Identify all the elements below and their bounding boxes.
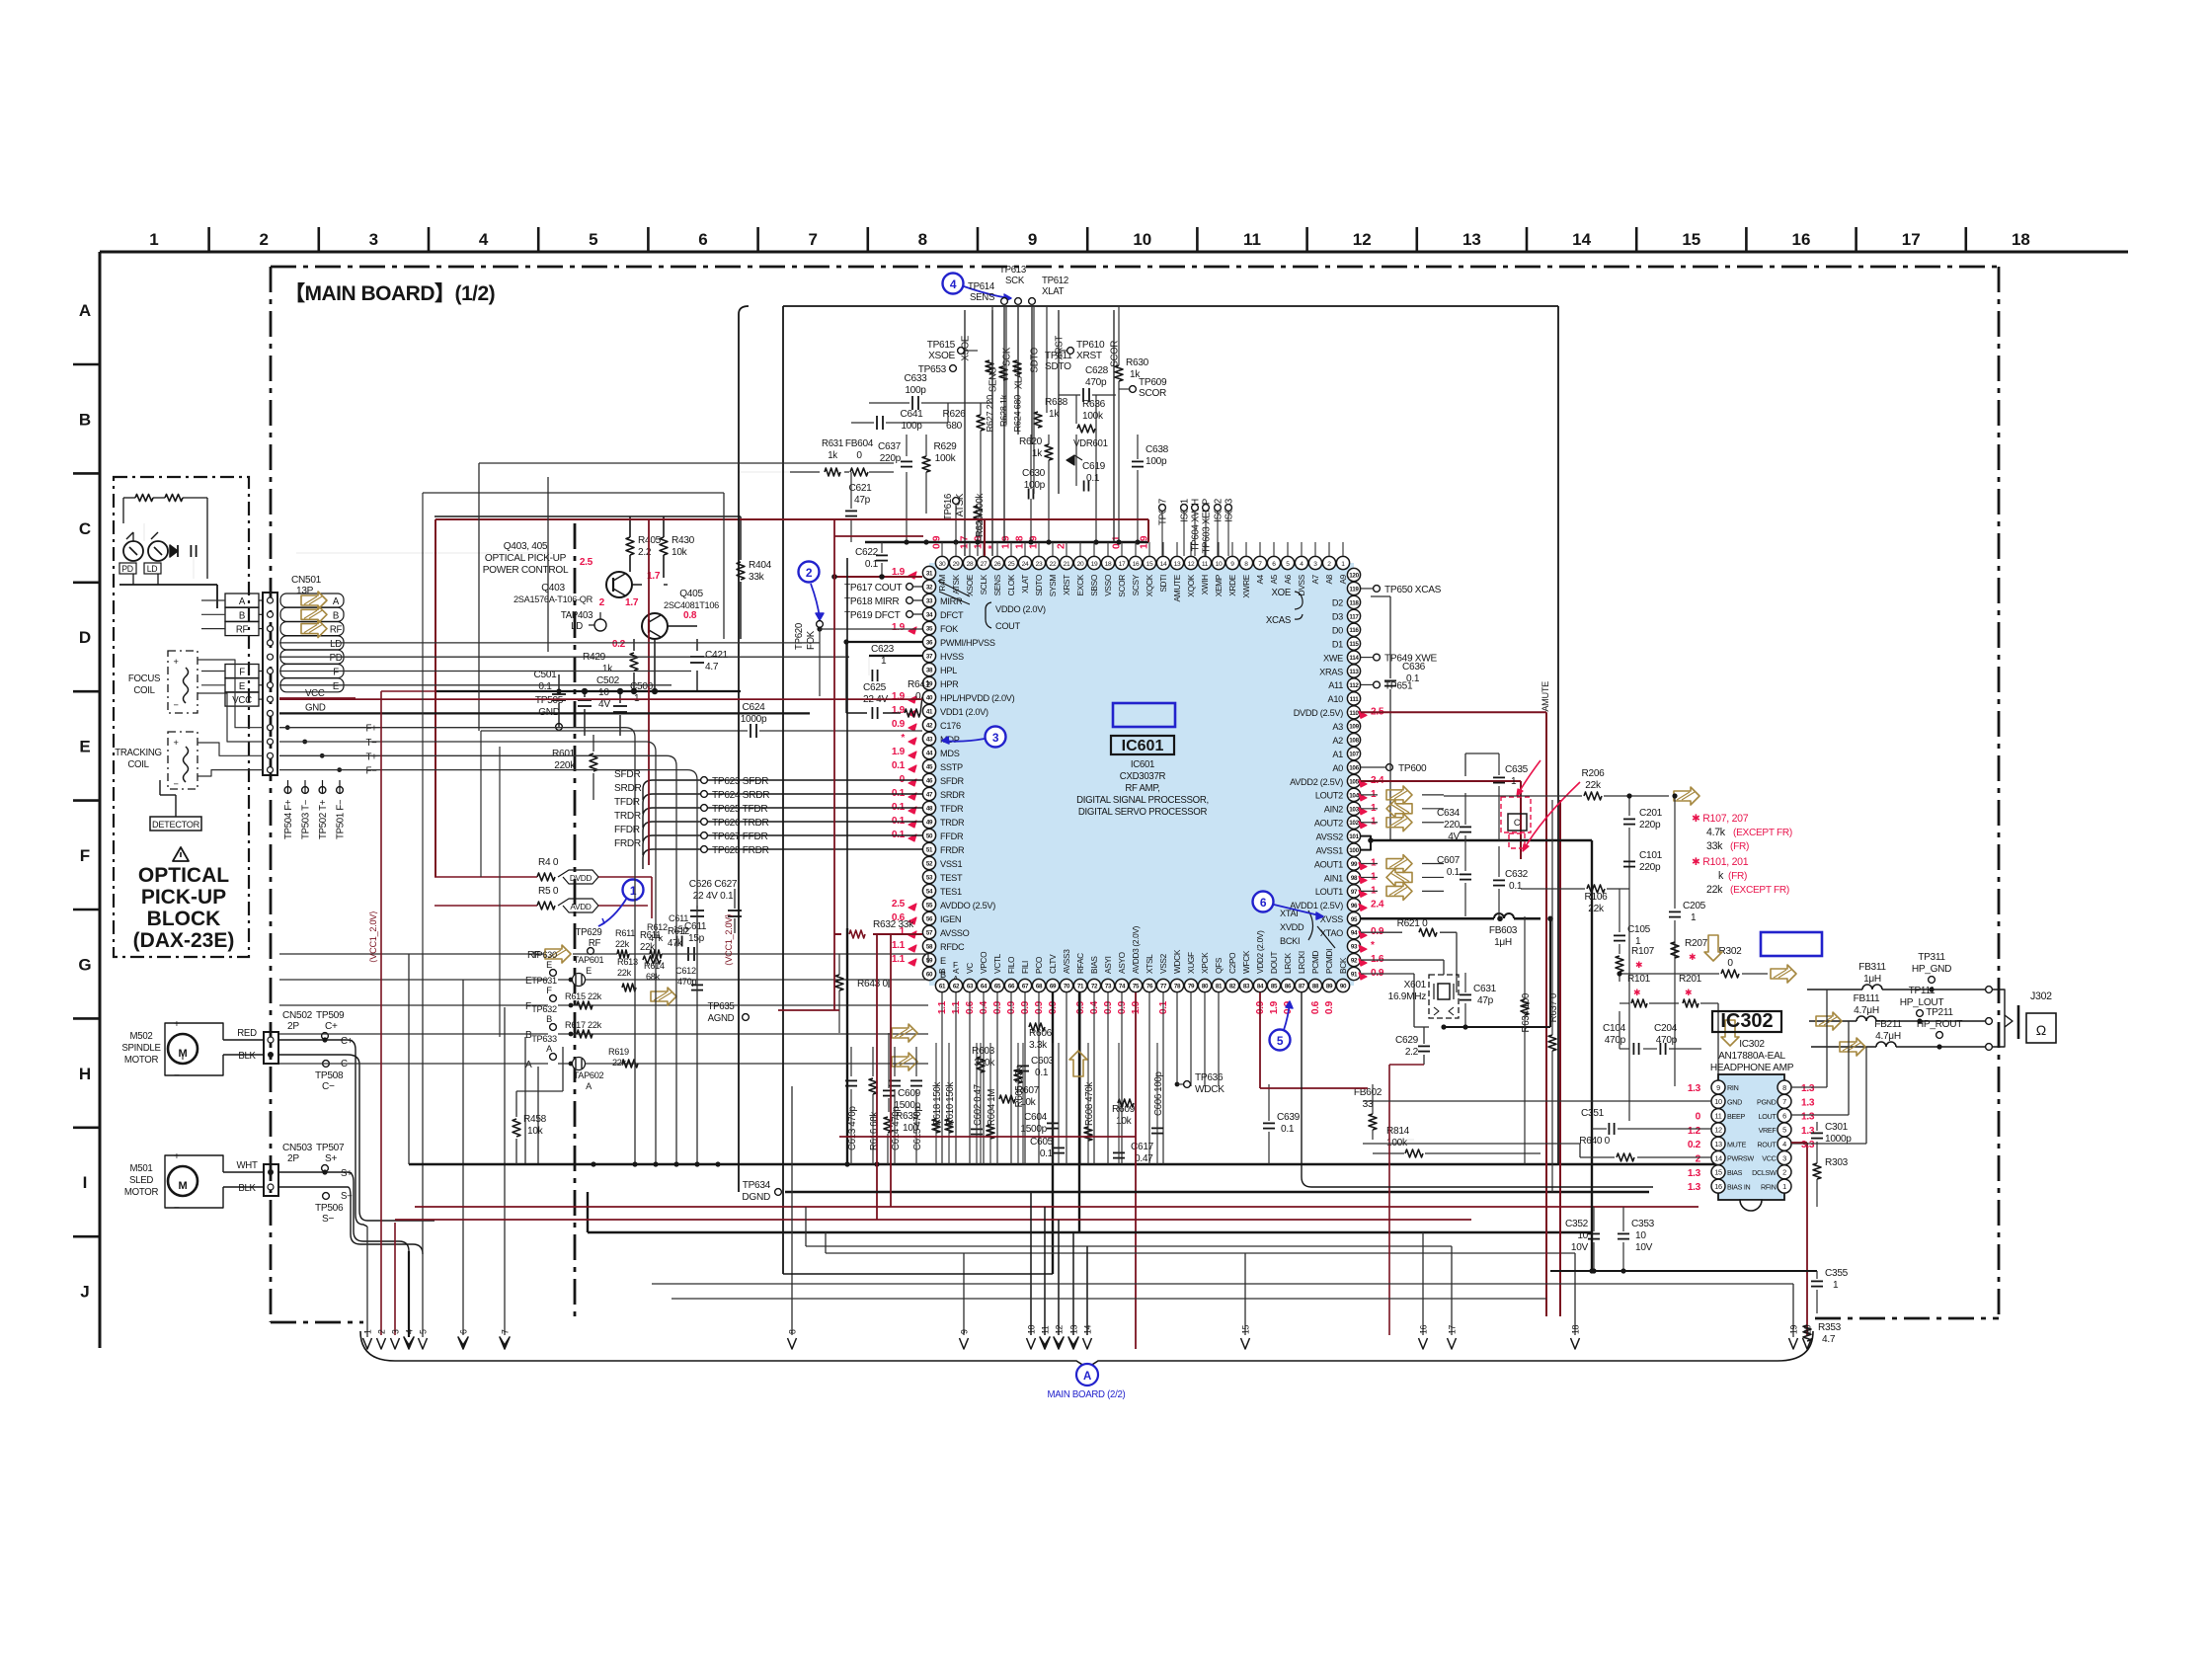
svg-text:C619: C619: [1082, 461, 1106, 472]
svg-text:1: 1: [881, 656, 887, 667]
svg-text:D3: D3: [1332, 612, 1343, 622]
svg-text:2P: 2P: [287, 1153, 299, 1164]
svg-text:C637: C637: [878, 441, 902, 452]
svg-text:XWE: XWE: [1323, 653, 1343, 663]
svg-text:I: I: [83, 1173, 88, 1192]
svg-text:BCK: BCK: [1339, 957, 1348, 974]
svg-text:R607: R607: [1016, 1085, 1040, 1096]
svg-text:✱: ✱: [1689, 952, 1696, 962]
svg-text:AVDD3 (2.0V): AVDD3 (2.0V): [1132, 925, 1141, 974]
svg-text:F+: F+: [366, 724, 378, 735]
svg-text:13: 13: [1174, 561, 1181, 568]
svg-text:58: 58: [926, 944, 933, 951]
svg-text:2: 2: [806, 566, 813, 580]
svg-text:3: 3: [1782, 1153, 1786, 1162]
svg-text:C617: C617: [1131, 1142, 1154, 1152]
svg-text:1k: 1k: [828, 450, 837, 461]
svg-text:SRDR: SRDR: [614, 783, 641, 794]
svg-text:C301: C301: [1825, 1122, 1849, 1133]
svg-text:10k: 10k: [527, 1126, 544, 1137]
svg-text:98: 98: [1351, 875, 1358, 882]
svg-text:49: 49: [926, 820, 933, 827]
svg-text:DIGITAL SIGNAL PROCESSOR,: DIGITAL SIGNAL PROCESSOR,: [1076, 795, 1209, 806]
svg-text:11: 11: [1714, 1111, 1721, 1120]
svg-text:10: 10: [1714, 1097, 1722, 1106]
svg-text:C605: C605: [1030, 1137, 1054, 1148]
svg-text:20: 20: [1077, 561, 1084, 568]
svg-text:B: B: [79, 410, 91, 429]
svg-text:2: 2: [377, 1329, 387, 1334]
svg-text:27: 27: [981, 561, 987, 568]
svg-text:7: 7: [1782, 1097, 1786, 1106]
svg-text:TP626 TRDR: TP626 TRDR: [712, 818, 769, 829]
svg-text:C101: C101: [1639, 850, 1663, 861]
svg-text:A8: A8: [1325, 574, 1334, 584]
svg-text:2.5: 2.5: [892, 899, 906, 910]
svg-text:HEADPHONE AMP: HEADPHONE AMP: [1710, 1063, 1794, 1073]
svg-text:C609: C609: [898, 1088, 921, 1099]
svg-text:28: 28: [967, 561, 974, 568]
svg-text:65: 65: [994, 984, 1001, 990]
svg-text:88: 88: [1312, 984, 1319, 990]
svg-text:C622: C622: [855, 547, 879, 558]
svg-text:59: 59: [926, 958, 933, 965]
svg-text:R629: R629: [934, 441, 958, 452]
svg-text:100k: 100k: [935, 453, 957, 464]
svg-text:S+: S+: [325, 1153, 337, 1164]
svg-text:XPCK: XPCK: [1201, 952, 1210, 974]
svg-text:119: 119: [1349, 586, 1359, 593]
svg-text:TP624 SRDR: TP624 SRDR: [712, 790, 769, 801]
svg-text:TP618 MIRR: TP618 MIRR: [844, 596, 899, 607]
svg-text:33: 33: [926, 598, 933, 605]
svg-text:R621 0: R621 0: [1397, 918, 1428, 929]
svg-text:C612: C612: [675, 966, 696, 976]
svg-text:XLAT: XLAT: [1021, 575, 1030, 594]
svg-text:FOK: FOK: [806, 630, 817, 650]
svg-text:SPINDLE: SPINDLE: [121, 1043, 161, 1054]
svg-text:AVSS2: AVSS2: [1316, 831, 1344, 841]
svg-text:R458: R458: [523, 1114, 547, 1125]
svg-text:95: 95: [1351, 916, 1358, 923]
svg-text:⟨VCC1_2.0V⟩: ⟨VCC1_2.0V⟩: [368, 911, 378, 963]
svg-text:LOUT2: LOUT2: [1315, 791, 1343, 801]
svg-text:PWRSW: PWRSW: [1727, 1155, 1754, 1163]
svg-text:0: 0: [1696, 1112, 1701, 1123]
svg-text:AN17880A-EAL: AN17880A-EAL: [1718, 1051, 1785, 1062]
svg-text:C607: C607: [1437, 855, 1461, 866]
svg-text:F: F: [525, 1001, 531, 1012]
svg-text:A10: A10: [1328, 694, 1344, 704]
svg-text:47p: 47p: [1477, 995, 1494, 1006]
svg-text:108: 108: [1349, 738, 1359, 745]
svg-text:114: 114: [1349, 655, 1359, 662]
svg-text:14: 14: [1714, 1153, 1722, 1162]
svg-text:C631: C631: [1473, 984, 1497, 994]
svg-text:22 4V 0.1: 22 4V 0.1: [693, 891, 734, 902]
svg-text:AVDD2 (2.5V): AVDD2 (2.5V): [1290, 777, 1343, 787]
svg-text:TP311: TP311: [1918, 952, 1945, 963]
svg-text:XWIH: XWIH: [1201, 575, 1210, 595]
svg-text:1.3: 1.3: [1801, 1126, 1815, 1137]
svg-text:F: F: [333, 668, 339, 678]
svg-text:15: 15: [1714, 1168, 1722, 1177]
svg-text:S−: S−: [322, 1214, 334, 1225]
svg-text:1k: 1k: [1049, 409, 1060, 420]
svg-text:TP211: TP211: [1926, 1007, 1953, 1018]
svg-text:E: E: [586, 966, 592, 976]
svg-text:AIN1: AIN1: [1324, 873, 1343, 883]
svg-text:R628 1k: R628 1k: [999, 394, 1009, 427]
svg-text:14: 14: [1160, 561, 1167, 568]
svg-text:C603: C603: [1031, 1056, 1055, 1067]
svg-text:45: 45: [926, 764, 933, 771]
svg-text:VDR601: VDR601: [1073, 438, 1108, 449]
svg-text:1.3: 1.3: [1801, 1083, 1815, 1094]
svg-text:16: 16: [1419, 1324, 1429, 1334]
svg-text:R303: R303: [1825, 1157, 1849, 1168]
svg-text:C626 C627: C626 C627: [689, 879, 738, 890]
svg-text:✱: ✱: [1685, 988, 1692, 997]
svg-text:5: 5: [1277, 1034, 1284, 1048]
svg-text:R641: R641: [908, 679, 931, 690]
svg-text:69: 69: [1050, 984, 1057, 990]
svg-text:A0: A0: [1332, 763, 1343, 773]
svg-text:6: 6: [459, 1329, 469, 1334]
svg-text:0.1: 0.1: [1406, 673, 1420, 684]
svg-text:SENS: SENS: [988, 367, 999, 392]
svg-text:3.3k: 3.3k: [1029, 1040, 1048, 1051]
svg-text:C104: C104: [1603, 1023, 1626, 1034]
svg-text:1.1: 1.1: [892, 940, 906, 951]
svg-text:VCTL: VCTL: [993, 953, 1002, 974]
svg-text:96: 96: [1351, 903, 1358, 910]
svg-text:TAP601: TAP601: [574, 955, 604, 965]
svg-text:C638: C638: [1145, 444, 1169, 455]
svg-text:TFDR: TFDR: [940, 804, 964, 814]
svg-text:AMUTE: AMUTE: [1173, 574, 1182, 601]
svg-text:2P: 2P: [287, 1021, 299, 1032]
svg-text:1.3: 1.3: [1688, 1083, 1701, 1094]
svg-text:110: 110: [1349, 710, 1359, 717]
svg-text:PCMD: PCMD: [1311, 951, 1320, 974]
svg-text:5: 5: [419, 1329, 429, 1334]
svg-text:1.3: 1.3: [1688, 1182, 1701, 1193]
svg-text:87: 87: [1299, 984, 1305, 990]
svg-text:SENS: SENS: [970, 292, 994, 303]
svg-text:C: C: [79, 519, 91, 538]
svg-text:4V: 4V: [598, 699, 610, 710]
svg-text:C625: C625: [863, 682, 887, 693]
svg-text:SDTO: SDTO: [1030, 347, 1041, 372]
svg-text:IC302: IC302: [1739, 1039, 1765, 1050]
svg-text:4: 4: [950, 277, 957, 291]
svg-text:100p: 100p: [905, 385, 926, 396]
svg-text:16: 16: [1714, 1182, 1722, 1191]
svg-text:C353: C353: [1631, 1219, 1655, 1229]
svg-text:74: 74: [1119, 984, 1126, 990]
svg-text:12: 12: [1353, 230, 1372, 249]
svg-text:A1: A1: [1332, 750, 1343, 759]
svg-text:15: 15: [1241, 1324, 1251, 1334]
svg-text:R630: R630: [1126, 357, 1149, 368]
svg-text:TP629: TP629: [576, 927, 602, 938]
svg-text:R612: R612: [647, 922, 668, 932]
svg-text:−: −: [173, 779, 178, 789]
svg-text:10: 10: [1133, 230, 1151, 249]
svg-text:C632: C632: [1505, 869, 1529, 880]
svg-text:VDD1 (2.0V): VDD1 (2.0V): [940, 707, 988, 717]
svg-text:16.9MHz: 16.9MHz: [1388, 991, 1427, 1002]
svg-text:80: 80: [1202, 984, 1209, 990]
svg-text:C604: C604: [1024, 1112, 1048, 1123]
svg-text:CLOK: CLOK: [1007, 574, 1016, 595]
svg-text:TAP602: TAP602: [574, 1070, 604, 1080]
svg-text:79: 79: [1188, 984, 1195, 990]
svg-text:R201: R201: [1679, 974, 1702, 985]
svg-text:470p: 470p: [1085, 377, 1107, 388]
svg-text:C639: C639: [1277, 1112, 1301, 1123]
svg-text:✱: ✱: [1633, 988, 1640, 997]
svg-text:R619: R619: [608, 1047, 629, 1057]
svg-text:100p: 100p: [1024, 480, 1046, 491]
svg-text:16: 16: [1792, 230, 1811, 249]
svg-text:HPR: HPR: [940, 679, 959, 689]
svg-text:B: B: [546, 1014, 552, 1024]
svg-text:2.5: 2.5: [580, 557, 593, 568]
svg-text:C621: C621: [849, 483, 873, 494]
svg-text:B: B: [333, 610, 339, 621]
svg-text:XUGF: XUGF: [1187, 952, 1196, 974]
svg-text:+: +: [173, 738, 178, 748]
svg-text:30: 30: [939, 561, 946, 568]
svg-text:−: −: [174, 1070, 180, 1081]
svg-text:100p: 100p: [1145, 456, 1167, 467]
svg-text:J: J: [80, 1283, 89, 1302]
svg-text:102: 102: [1349, 820, 1359, 827]
svg-text:116: 116: [1349, 627, 1359, 634]
svg-text:✱: ✱: [1635, 960, 1642, 970]
svg-text:15: 15: [1146, 561, 1153, 568]
svg-text:1: 1: [1691, 912, 1697, 923]
svg-text:4: 4: [479, 230, 489, 249]
svg-text:WFCK: WFCK: [1242, 950, 1251, 974]
svg-text:6: 6: [698, 230, 707, 249]
svg-text:29: 29: [953, 561, 960, 568]
svg-text:24: 24: [1022, 561, 1029, 568]
svg-text:TP632: TP632: [531, 1004, 557, 1014]
svg-text:22: 22: [1050, 561, 1057, 568]
svg-text:LOUT: LOUT: [1759, 1113, 1777, 1121]
svg-text:COIL: COIL: [127, 759, 149, 770]
svg-text:3: 3: [391, 1329, 401, 1334]
svg-text:R107: R107: [1631, 946, 1655, 957]
svg-text:TP504 F+: TP504 F+: [283, 799, 294, 839]
svg-text:MIRR: MIRR: [940, 596, 963, 606]
svg-text:XVDD: XVDD: [1280, 922, 1304, 932]
svg-text:Ω: Ω: [2036, 1022, 2046, 1038]
svg-text:2: 2: [1782, 1168, 1786, 1177]
svg-text:115: 115: [1349, 641, 1359, 648]
svg-text:IC302: IC302: [1720, 1010, 1773, 1032]
svg-text:CXD3037R: CXD3037R: [1120, 771, 1166, 782]
svg-text:105: 105: [1349, 778, 1359, 785]
svg-text:R4 0: R4 0: [538, 857, 559, 868]
svg-text:9: 9: [1028, 230, 1037, 249]
svg-text:73: 73: [1105, 984, 1112, 990]
svg-text:D2: D2: [1332, 598, 1343, 608]
svg-text:A7: A7: [1311, 574, 1320, 584]
svg-text:34: 34: [926, 612, 933, 619]
svg-text:FFDR: FFDR: [614, 825, 640, 835]
svg-text:Q403: Q403: [541, 583, 565, 594]
svg-text:17: 17: [1448, 1324, 1458, 1334]
svg-text:CN502: CN502: [282, 1010, 313, 1021]
svg-text:56: 56: [926, 916, 933, 923]
svg-text:22k: 22k: [1588, 904, 1605, 914]
svg-text:2: 2: [259, 230, 268, 249]
svg-text:A: A: [333, 596, 340, 607]
svg-text:TP631: TP631: [531, 976, 557, 986]
svg-text:51: 51: [926, 847, 933, 854]
svg-text:33k: 33k: [749, 572, 765, 583]
svg-text:R637 0: R637 0: [1548, 993, 1559, 1022]
svg-text:78: 78: [1174, 984, 1181, 990]
svg-text:+: +: [174, 1151, 180, 1162]
svg-text:RFDC: RFDC: [940, 942, 965, 952]
svg-text:C351: C351: [1581, 1108, 1605, 1119]
svg-text:4.7μH: 4.7μH: [1875, 1031, 1901, 1042]
svg-text:A2: A2: [1332, 736, 1343, 746]
svg-text:TP619 DFCT: TP619 DFCT: [844, 610, 901, 621]
svg-text:R635: R635: [896, 1111, 919, 1122]
svg-text:WDCK: WDCK: [1195, 1084, 1224, 1095]
svg-text:FB211: FB211: [1874, 1019, 1902, 1030]
svg-text:PICK-UP: PICK-UP: [141, 886, 226, 909]
svg-text:XRDE: XRDE: [1228, 574, 1237, 596]
svg-text:DETECTOR: DETECTOR: [152, 820, 200, 830]
svg-text:43: 43: [926, 737, 933, 744]
svg-text:DIGITAL SERVO PROCESSOR: DIGITAL SERVO PROCESSOR: [1078, 807, 1208, 818]
svg-text:47k: 47k: [668, 938, 682, 949]
svg-text:AVDD: AVDD: [570, 903, 591, 911]
svg-text:2.2: 2.2: [1405, 1047, 1419, 1058]
svg-text:A: A: [79, 301, 91, 320]
svg-text:C636: C636: [1402, 662, 1426, 673]
svg-text:DOUT: DOUT: [1270, 952, 1279, 974]
svg-text:0.1: 0.1: [1509, 881, 1523, 892]
svg-text:54: 54: [926, 889, 933, 896]
svg-text:J302: J302: [2030, 990, 2052, 1002]
svg-text:94: 94: [1351, 930, 1358, 937]
svg-text:PD: PD: [121, 564, 133, 574]
svg-text:100k: 100k: [1082, 411, 1104, 422]
svg-text:C: C: [1514, 818, 1521, 828]
svg-text:Q403, 405: Q403, 405: [504, 541, 548, 552]
svg-text:AGND: AGND: [708, 1013, 735, 1024]
svg-text:23: 23: [1036, 561, 1043, 568]
svg-text:FB311: FB311: [1858, 962, 1886, 973]
svg-text:4: 4: [1782, 1140, 1786, 1148]
svg-text:111: 111: [1350, 696, 1360, 703]
svg-text:0: 0: [856, 450, 862, 461]
svg-text:TP613: TP613: [999, 265, 1026, 276]
svg-text:ATSK: ATSK: [955, 493, 966, 516]
svg-text:HVSS: HVSS: [940, 652, 964, 662]
svg-text:10: 10: [1577, 1230, 1588, 1241]
svg-text:TP633: TP633: [531, 1034, 557, 1044]
svg-text:109: 109: [1349, 724, 1359, 731]
svg-text:X601: X601: [1404, 980, 1427, 990]
svg-text:PCO: PCO: [1035, 956, 1044, 974]
svg-text:4.7: 4.7: [1822, 1334, 1836, 1345]
svg-text:A: A: [239, 596, 246, 607]
svg-text:R207: R207: [1685, 938, 1708, 949]
svg-text:1.3: 1.3: [1801, 1097, 1815, 1108]
svg-text:68: 68: [1036, 984, 1043, 990]
svg-text:46: 46: [926, 778, 933, 785]
svg-text:R101: R101: [1627, 974, 1651, 985]
svg-text:A4: A4: [1256, 574, 1265, 584]
svg-text:VSS2: VSS2: [1159, 953, 1168, 974]
svg-text:76: 76: [1146, 984, 1153, 990]
svg-text:R611: R611: [615, 928, 635, 938]
svg-text:D0: D0: [1332, 626, 1343, 636]
svg-text:TRDR: TRDR: [614, 811, 641, 822]
svg-text:AVSSO: AVSSO: [940, 928, 970, 938]
svg-text:1: 1: [149, 230, 158, 249]
svg-text:PGND: PGND: [1757, 1099, 1777, 1107]
svg-text:RED: RED: [237, 1028, 257, 1039]
svg-text:0.6: 0.6: [1310, 1000, 1321, 1014]
svg-text:7: 7: [501, 1329, 511, 1334]
svg-text:AVDDO (2.5V): AVDDO (2.5V): [940, 901, 995, 911]
svg-text:R603: R603: [972, 1046, 995, 1057]
svg-text:SDTO: SDTO: [1035, 574, 1044, 595]
svg-text:LD: LD: [330, 639, 342, 650]
svg-text:R626: R626: [943, 409, 967, 420]
svg-text:22k: 22k: [1585, 780, 1602, 791]
svg-text:−: −: [173, 700, 178, 710]
svg-text:104: 104: [1349, 792, 1359, 799]
svg-text:CN501: CN501: [291, 575, 322, 586]
svg-text:DCLSW: DCLSW: [1752, 1169, 1777, 1177]
svg-text:C201: C201: [1639, 808, 1663, 819]
svg-text:7: 7: [808, 230, 817, 249]
svg-text:FILO: FILO: [1007, 956, 1016, 974]
svg-text:B: B: [239, 610, 245, 621]
svg-text:TP610: TP610: [1076, 340, 1105, 351]
svg-text:40: 40: [926, 695, 933, 702]
svg-text:D1: D1: [1332, 639, 1343, 649]
svg-text:BLK: BLK: [238, 1051, 256, 1062]
svg-text:2: 2: [599, 597, 605, 608]
svg-text:0.1: 0.1: [892, 760, 906, 771]
svg-text:17: 17: [1119, 561, 1126, 568]
svg-text:67: 67: [1022, 984, 1029, 990]
svg-text:3: 3: [992, 731, 999, 745]
svg-text:XTSL: XTSL: [1145, 954, 1154, 974]
svg-text:0: 0: [915, 691, 921, 702]
svg-text:A: A: [1083, 1371, 1091, 1383]
svg-text:XQOK: XQOK: [1187, 574, 1196, 596]
svg-text:DVDD (2.5V): DVDD (2.5V): [1294, 708, 1344, 718]
svg-text:AOUT1: AOUT1: [1314, 859, 1343, 869]
svg-text:R601: R601: [552, 749, 576, 759]
svg-text:10V: 10V: [1635, 1242, 1653, 1253]
svg-text:TAP403: TAP403: [561, 610, 592, 621]
svg-text:84: 84: [1257, 984, 1264, 990]
